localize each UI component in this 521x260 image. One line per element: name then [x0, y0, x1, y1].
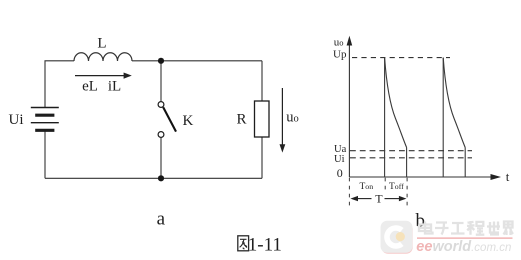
inductor L	[74, 53, 132, 61]
y-axis uo	[347, 36, 353, 177]
程	[467, 221, 484, 235]
watermark logo shadow	[382, 223, 413, 254]
output arrow uo	[280, 88, 286, 153]
svg-text:uo: uo	[334, 37, 344, 49]
svg-text:K: K	[183, 113, 194, 129]
node: bottom junction	[158, 175, 164, 181]
watermark underline	[417, 237, 513, 239]
svg-text:on: on	[365, 182, 373, 191]
period measure T (double arrow)	[350, 196, 406, 201]
resistor R	[255, 101, 270, 137]
工	[451, 223, 465, 234]
dashed tick at Ton end	[384, 178, 386, 192]
svg-text:R: R	[237, 112, 247, 128]
wire right rail upper	[261, 61, 263, 101]
pulse 2 rising edge	[442, 58, 444, 177]
wire bottom rail	[45, 177, 262, 179]
dashed level Ui	[350, 157, 472, 159]
svg-text:Ui: Ui	[334, 154, 345, 165]
dashed tick at t=0	[348, 178, 350, 207]
caption 图1-11 : hand-drawn 图 glyph	[238, 236, 249, 251]
wire top-left (left rail top + corner to inductor)	[45, 61, 74, 108]
x-axis t	[349, 174, 501, 180]
svg-text:eL: eL	[82, 78, 98, 94]
watermark logo center dot	[396, 232, 405, 241]
svg-text:off: off	[395, 182, 404, 191]
pulse 1 decay curve	[385, 58, 407, 148]
svg-text:Up: Up	[333, 49, 347, 61]
wire switch branch upper	[160, 61, 162, 102]
current arrow eL/iL	[75, 73, 132, 79]
界	[504, 222, 514, 236]
switch K	[158, 102, 176, 138]
svg-text:1-11: 1-11	[248, 235, 282, 256]
dashed level Ua	[350, 150, 472, 152]
pulse 2 decay curve	[443, 58, 465, 148]
wire top rail (inductor to right corner)	[132, 60, 262, 62]
battery Ui (source plates)	[31, 108, 59, 131]
svg-text:L: L	[97, 36, 106, 52]
node: top junction	[158, 58, 164, 64]
wire left rail lower (battery to bottom rail)	[44, 131, 46, 178]
svg-text:eeworld.com.cn: eeworld.com.cn	[416, 239, 511, 255]
svg-text:uo: uo	[286, 109, 299, 125]
svg-text:0: 0	[337, 166, 343, 180]
wire switch branch lower	[160, 137, 162, 178]
watermark text 电子工程世界 (drawn)	[419, 221, 513, 235]
dashed level Up	[352, 57, 450, 59]
电	[419, 222, 433, 234]
wire right rail lower	[261, 137, 263, 178]
watermark logo C crescent	[384, 225, 403, 249]
svg-text:Ui: Ui	[9, 112, 24, 128]
watermark logo square	[381, 221, 413, 253]
svg-text:a: a	[157, 209, 166, 230]
svg-text:iL: iL	[108, 78, 121, 94]
子	[435, 223, 449, 235]
svg-text:t: t	[506, 169, 510, 184]
pulse 2 falling edge	[464, 148, 466, 178]
pulse 1 falling edge	[406, 148, 408, 178]
pulse 1 rising edge	[384, 58, 386, 177]
svg-text:T: T	[375, 191, 383, 205]
世	[487, 222, 500, 235]
dashed tick at T end	[406, 178, 408, 207]
